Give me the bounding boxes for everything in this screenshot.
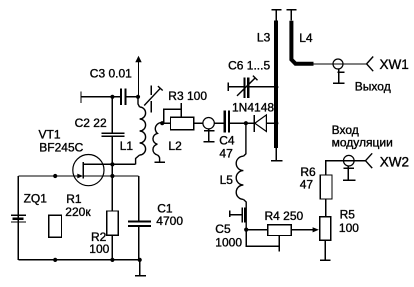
svg-text:L4: L4 bbox=[299, 31, 313, 45]
svg-text:C2 22: C2 22 bbox=[75, 116, 107, 130]
svg-text:XW1: XW1 bbox=[380, 57, 409, 72]
svg-text:C3 0.01: C3 0.01 bbox=[90, 66, 132, 80]
svg-text:4700: 4700 bbox=[156, 214, 183, 228]
svg-text:R1: R1 bbox=[66, 192, 82, 206]
svg-text:1N4148: 1N4148 bbox=[232, 101, 274, 115]
svg-text:Выход: Выход bbox=[355, 79, 391, 93]
svg-text:XW2: XW2 bbox=[380, 155, 409, 170]
svg-text:R4 250: R4 250 bbox=[265, 209, 304, 223]
svg-text:47: 47 bbox=[219, 146, 233, 160]
svg-text:модуляции: модуляции bbox=[332, 135, 393, 149]
svg-text:1000: 1000 bbox=[215, 236, 242, 250]
svg-text:100: 100 bbox=[89, 242, 109, 256]
svg-text:C6 1...5: C6 1...5 bbox=[228, 58, 270, 72]
svg-text:L5: L5 bbox=[220, 173, 234, 187]
svg-text:L1: L1 bbox=[120, 139, 134, 153]
svg-text:R5: R5 bbox=[340, 207, 356, 221]
svg-text:100: 100 bbox=[339, 221, 359, 235]
svg-text:L2: L2 bbox=[168, 139, 182, 153]
svg-text:C4: C4 bbox=[219, 133, 235, 147]
svg-text:R3 100: R3 100 bbox=[168, 89, 207, 103]
svg-text:ZQ1: ZQ1 bbox=[24, 191, 48, 205]
svg-text:L3: L3 bbox=[257, 31, 271, 45]
svg-text:C5: C5 bbox=[215, 222, 231, 236]
svg-text:220к: 220к bbox=[65, 205, 91, 219]
svg-text:47: 47 bbox=[300, 178, 314, 192]
svg-text:BF245C: BF245C bbox=[39, 140, 83, 154]
